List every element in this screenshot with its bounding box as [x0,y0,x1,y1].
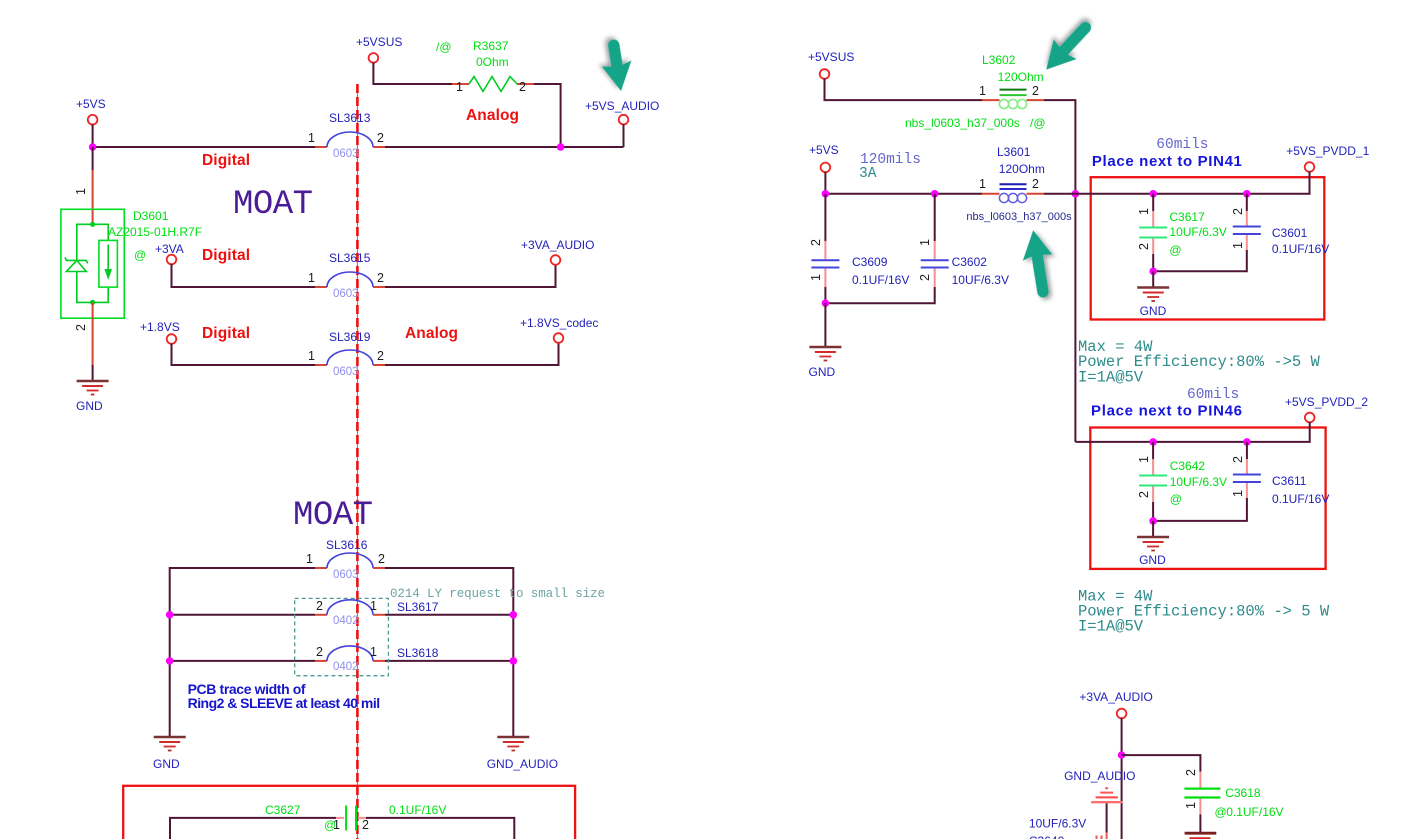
diode D3601 triangle [66,260,86,271]
svg-text:Digital: Digital [202,325,250,342]
wire right of SL3616 [385,568,513,737]
wire C3617 bottom to GND [1152,271,1154,287]
ferrite bead SL3616 pin2 stub [373,567,385,569]
teal arrow 3 (under L3601) [1018,228,1058,300]
capacitor C3618 bottom plate [1184,796,1220,798]
inductor L3602 pin1 stub [982,99,1000,101]
capacitor C3627 left plate [345,806,347,831]
diode D3601 pin1 (red) [92,170,94,224]
inductor L3601 pin1 stub [982,193,1000,195]
wire right of SL3618 [385,660,513,662]
svg-text:nbs_l0603_h37_000s: nbs_l0603_h37_000s [905,116,1020,130]
wire +5VS down [92,124,94,147]
wire +5VS_AUDIO down [623,124,625,147]
junction at C3617 top [1149,190,1157,198]
svg-text:2: 2 [1184,769,1198,776]
capacitor C3642 bottom plate [1139,485,1167,487]
svg-text:+3VA_AUDIO: +3VA_AUDIO [1079,690,1152,704]
capacitor C3611 top plate [1233,474,1261,476]
capacitor C3642 top wire [1152,442,1154,459]
svg-text:C3611: C3611 [1272,474,1307,488]
svg-text:SL3613: SL3613 [329,111,371,125]
MOAT boundary line (red dashes) [356,84,359,839]
capacitor C3627 pin1 stub [336,817,344,819]
terminal +5VSUS (right) [820,69,830,79]
svg-text:/@: /@ [436,40,452,54]
svg-text:C3618: C3618 [1225,786,1261,800]
wire L3601 to trunk [1044,193,1075,195]
junction trunk at L3601 row [1072,190,1080,198]
svg-text:SL3619: SL3619 [329,330,371,344]
svg-text:2: 2 [1032,177,1039,191]
ground GND (box1) [1137,288,1169,302]
wire box2 row [1075,422,1309,442]
capacitor C3640 stub marks (clipped) [1096,836,1098,839]
red rule box (bottom) [123,786,575,839]
terminal +5VS [88,115,98,125]
wire +5VS row to L3601 [825,193,982,195]
svg-text:0.1UF/16V: 0.1UF/16V [852,273,909,287]
svg-text:120Ohm: 120Ohm [999,162,1045,176]
ground GND_AUDIO pin red tail [1106,833,1108,839]
capacitor C3627 pin2 stub [358,817,366,819]
capacitor C3611 top wire [1246,442,1248,459]
junction at C3642 bottom [1149,517,1157,525]
svg-text:1: 1 [918,239,932,246]
svg-text:2: 2 [377,349,384,363]
svg-text:1: 1 [306,552,313,566]
capacitor C3618 top plate [1184,787,1220,789]
diode D3601 internal bottom node [77,272,108,303]
capacitor C3602 top plate [921,259,949,261]
dashed selection box around SL3617 SL3618 [295,598,389,675]
svg-text:0.1UF/16V: 0.1UF/16V [1226,805,1283,819]
svg-text:GND_AUDIO: GND_AUDIO [1064,769,1135,783]
svg-text:+1.8VS_codec: +1.8VS_codec [520,316,598,330]
wire +3VA down-right [172,264,316,287]
svg-text:1: 1 [74,188,88,195]
svg-text:C3617: C3617 [1169,210,1205,224]
svg-text:1: 1 [809,274,823,281]
svg-text:SL3618: SL3618 [397,646,439,660]
junction SL3617 right [510,611,518,619]
svg-text:0214 LY request to small size: 0214 LY request to small size [390,587,605,601]
capacitor C3601 pin2 stub [1246,211,1248,226]
junction at C3609 bottom [822,299,830,307]
wire +5VSUS down-right to R3637 [373,63,452,85]
junction SL3618 left [166,657,174,665]
capacitor C3642 bottom wire [1152,502,1154,521]
svg-text:Digital: Digital [202,152,250,169]
terminal +1.8VS_codec [554,333,564,343]
wire C3618 to ground [1199,814,1201,832]
svg-text:SL3615: SL3615 [329,251,371,265]
svg-text:C3602: C3602 [952,255,988,269]
wire +1.8VS down-right [172,344,316,366]
MOAT boundary line (gray underlay) [356,84,358,839]
svg-text:C3609: C3609 [852,255,888,269]
teal arrow 2 (at L3602) [1035,13,1100,80]
terminal +5VSUS (left) [369,53,379,63]
svg-text:0402: 0402 [333,661,359,673]
capacitor C3602 top wire [934,194,936,241]
capacitor C3609 top plate [811,259,839,261]
inductor L3601 pin2 stub [1027,193,1045,195]
capacitor C3609 bottom plate [811,267,839,269]
svg-text:@: @ [1169,243,1181,257]
capacitor C3617 bottom plate [1139,237,1167,239]
svg-text:+5VS_PVDD_1: +5VS_PVDD_1 [1286,144,1369,158]
junction at C3611 top [1243,438,1251,446]
junction at +5VS right [822,190,830,198]
ground GND_AUDIO (bottom) [497,737,529,751]
resistor R3637 pin1 stub [452,83,469,85]
svg-text:2: 2 [519,80,526,94]
svg-text:GND: GND [1140,304,1167,318]
wire SL3619 to +1.8VS_codec [385,343,559,366]
svg-text:+5VSUS: +5VSUS [808,50,854,64]
svg-text:2: 2 [74,324,88,331]
inductor L3602 coil loops [999,99,1026,108]
wire left of SL3617 [170,614,315,616]
svg-text:+5VS: +5VS [809,143,839,157]
svg-text:120Ohm: 120Ohm [998,70,1044,84]
ferrite bead SL3613 pin2 stub [373,146,385,148]
capacitor C3609 top wire [824,194,826,241]
junction SL3617 left [166,611,174,619]
junction at C3602 top [931,190,939,198]
junction at +5VS column [89,143,97,151]
ferrite bead SL3617 arc [327,600,373,615]
svg-text:L3601: L3601 [997,145,1031,159]
ground GND_AUDIO inverted bar1 [1091,801,1122,803]
ferrite bead SL3613 pin1 stub [315,146,327,148]
ferrite bead SL3618 arc [327,646,373,661]
svg-text:@: @ [1170,492,1182,506]
diode D3601 arrowhead [104,269,112,280]
svg-text:0.1UF/16V: 0.1UF/16V [1272,242,1329,256]
terminal +3VA_AUDIO [551,255,561,265]
capacitor C3609 pin2 stub [824,241,826,259]
svg-text:+5VSUS: +5VSUS [356,35,402,49]
inductor L3601 bar bottom [1000,188,1027,190]
capacitor C3642 pin2 stub [1152,487,1154,503]
svg-text:1: 1 [979,84,986,98]
svg-text:Place next to PIN46: Place next to PIN46 [1091,403,1242,420]
ground bar2 under C3618 (clipped) [1190,837,1211,839]
capacitor C3611 pin1 stub [1246,483,1248,498]
diode D3601 zener cathode bar [65,257,88,263]
svg-text:2: 2 [377,131,384,145]
terminal +3VA [167,255,177,265]
capacitor C3642 top plate [1139,475,1167,477]
ferrite bead SL3615 pin1 stub [315,286,327,288]
ground GND_AUDIO inverted bar3 [1100,792,1113,794]
capacitor C3609 bottom wire [824,287,826,303]
ferrite bead SL3615 arc [327,272,373,287]
ferrite bead SL3616 pin1 stub [315,567,327,569]
svg-text:GND: GND [809,365,836,379]
ground GND (under C3609) [809,347,841,361]
ground GND (box2) [1137,537,1169,551]
terminal +5VS_PVDD_1 [1305,162,1315,172]
svg-text:3A: 3A [859,166,877,182]
svg-text:Analog: Analog [466,107,519,124]
ground GND (bottom left) [154,737,186,751]
wire SL3615 to +3VA_AUDIO [385,265,556,288]
svg-text:MOAT: MOAT [293,497,373,535]
junction at C3601 top [1243,190,1251,198]
wire bottom box right [366,818,514,839]
svg-text:C3640: C3640 [1029,834,1065,839]
capacitor C3602 pin1 stub [934,241,936,259]
svg-text:MOAT: MOAT [233,186,313,224]
teal arrow 1 (at +5VS_AUDIO) [598,37,636,93]
resistor R3637 pin2 stub [517,83,534,85]
capacitor C3618 pin2 stub [1199,772,1201,788]
svg-text:/@: /@ [1030,116,1046,130]
svg-text:+5VS: +5VS [76,97,106,111]
svg-text:0603: 0603 [333,366,359,378]
svg-text:1: 1 [456,80,463,94]
svg-text:GND: GND [1139,553,1166,567]
ferrite bead SL3617 pin1 stub [373,614,385,616]
terminal +5VS (right) [821,163,831,173]
wire +5VS to diode D3601 [92,147,94,170]
svg-text:1: 1 [370,645,377,659]
svg-text:1: 1 [1137,456,1151,463]
svg-text:1: 1 [370,599,377,613]
svg-text:2: 2 [918,274,932,281]
junction SL3618 right [510,657,518,665]
svg-text:2: 2 [316,599,323,613]
inductor L3602 bar bottom [1000,94,1027,96]
capacitor C3617 bottom wire [1152,254,1154,271]
wire box1 row [1075,171,1309,193]
wire +5VSUS to L3602 [825,78,983,100]
capacitor C3609 pin1 stub [824,269,826,288]
svg-text:2: 2 [377,271,384,285]
capacitor C3611 bottom wire [1153,498,1247,521]
capacitor C3601 top wire [1246,194,1248,211]
ferrite bead SL3616 arc [327,553,373,568]
diode D3601 internal top node [77,224,108,260]
svg-text:GND: GND [76,399,103,413]
capacitor C3611 bottom plate [1233,481,1261,483]
capacitor C3602 pin2 stub [934,269,936,288]
svg-text:R3637: R3637 [473,39,509,53]
capacitor C3617 pin2 stub [1152,239,1154,255]
svg-text:2: 2 [809,239,823,246]
svg-text:C3642: C3642 [1170,459,1206,473]
svg-text:GND: GND [153,757,180,771]
svg-text:1: 1 [1184,802,1198,809]
junction at C3642 top [1149,438,1157,446]
capacitor C3618 pin1 stub [1199,799,1201,815]
capacitor C3627 right plate [355,806,357,831]
ferrite bead SL3613 arc [327,132,373,147]
ground GND (left) [77,381,109,395]
svg-text:1: 1 [308,131,315,145]
wire bottom box left [170,818,336,839]
ground GND_AUDIO inverted dash [1105,787,1108,789]
svg-text:Ring2 & SLEEVE at least 40 mil: Ring2 & SLEEVE at least 40 mil [188,695,381,711]
svg-text:@: @ [134,248,146,262]
svg-text:1: 1 [308,349,315,363]
svg-text:2: 2 [1231,208,1245,215]
svg-text:1: 1 [308,271,315,285]
capacitor C3611 pin2 stub [1246,459,1248,474]
svg-text:1: 1 [333,818,340,832]
capacitor C3601 pin1 stub [1246,235,1248,250]
svg-text:Place next to PIN41: Place next to PIN41 [1092,153,1242,170]
terminal +5VS_PVDD_2 [1305,413,1315,423]
diode D3601 pin2 (red) [92,302,94,365]
svg-text:SL3616: SL3616 [326,538,368,552]
junction at R3637 branch [557,143,565,151]
svg-text:10UF/6.3V: 10UF/6.3V [1170,475,1227,489]
svg-text:0.1UF/16V: 0.1UF/16V [1272,492,1329,506]
capacitor C3617 top wire [1152,194,1154,211]
red rule box PIN41 [1091,177,1325,319]
diode D3601 arrow inside box [107,245,109,271]
svg-text:0603: 0603 [333,569,359,581]
svg-text:@: @ [1215,805,1227,819]
ground GND_AUDIO pin wire [1106,803,1108,832]
wire L3602 to trunk [1044,100,1075,442]
wire left of SL3618 [170,660,315,662]
svg-text:nbs_l0603_h37_000s: nbs_l0603_h37_000s [966,211,1072,223]
svg-text:1: 1 [1137,208,1151,215]
svg-text:10UF/6.3V: 10UF/6.3V [1029,817,1086,831]
svg-text:+5VS_AUDIO: +5VS_AUDIO [585,99,659,113]
svg-text:+5VS_PVDD_2: +5VS_PVDD_2 [1285,395,1368,409]
svg-text:2: 2 [378,552,385,566]
ferrite bead SL3618 pin1 stub [373,660,385,662]
svg-text:2: 2 [1137,243,1151,250]
svg-text:+1.8VS: +1.8VS [140,320,180,334]
svg-text:GND_AUDIO: GND_AUDIO [487,757,558,771]
wire SL3613 to +5VS_AUDIO [385,146,624,148]
wire C3609 bottom to GND [824,303,826,347]
svg-text:0402: 0402 [333,615,359,627]
svg-text:2: 2 [362,818,369,832]
junction at C3617 bottom [1149,268,1157,276]
wire +5VS down [824,172,826,194]
svg-text:2: 2 [1231,456,1245,463]
svg-text:1: 1 [1231,490,1245,497]
ground GND_AUDIO inverted bar2 [1096,796,1118,798]
ground bar under C3618 (clipped) [1185,832,1217,835]
svg-text:SL3617: SL3617 [397,600,439,614]
wire C3642 bottom to GND [1152,521,1154,537]
red rule box PIN46 [1090,428,1325,569]
capacitor C3602 bottom plate [921,267,949,269]
capacitor C3617 top plate [1139,227,1167,229]
svg-text:I=1A@5V: I=1A@5V [1078,618,1144,636]
svg-text:60mils: 60mils [1187,387,1239,403]
svg-text:C3601: C3601 [1272,226,1308,240]
capacitor C3642 pin1 stub [1152,459,1154,475]
wire left of SL3616 [170,568,315,737]
svg-text:1: 1 [1231,242,1245,249]
junction +3VA_AUDIO [1118,751,1126,759]
diode D3601 internal bottom dot [90,300,95,305]
svg-text:+3VA_AUDIO: +3VA_AUDIO [521,238,594,252]
ferrite bead SL3619 pin2 stub [373,364,385,366]
svg-text:L3602: L3602 [982,53,1016,67]
diode D3601 regulator box [99,240,118,287]
svg-text:0603: 0603 [333,148,359,160]
svg-text:0Ohm: 0Ohm [476,55,509,69]
svg-text:1: 1 [979,177,986,191]
wire D3601 to GND [92,365,94,381]
wire main +5VS row [93,146,315,148]
svg-text:Analog: Analog [405,325,458,342]
svg-text:10UF/6.3V: 10UF/6.3V [952,273,1009,287]
ferrite bead SL3618 pin2 stub [315,660,327,662]
ferrite bead SL3619 pin1 stub [315,364,327,366]
inductor L3601 coil loops [999,193,1026,202]
diode D3601 package outline [61,209,124,318]
svg-text:I=1A@5V: I=1A@5V [1078,368,1144,386]
ferrite bead SL3617 pin2 stub [315,614,327,616]
svg-text:2: 2 [316,645,323,659]
wire R3637 to +5VS_AUDIO net [534,84,561,147]
ferrite bead SL3619 arc [327,350,373,365]
svg-text:Digital: Digital [202,247,250,264]
svg-text:0.1UF/16V: 0.1UF/16V [389,803,446,817]
svg-text:10UF/6.3V: 10UF/6.3V [1169,225,1226,239]
capacitor C3601 bottom wire [1153,250,1247,271]
diode D3601 internal top dot [90,222,95,227]
capacitor C3601 top plate [1233,226,1261,228]
svg-text:2: 2 [1032,84,1039,98]
svg-text:D3601: D3601 [133,209,169,223]
terminal +1.8VS [167,334,177,344]
svg-text:AZ2015-01H.R7F: AZ2015-01H.R7F [108,225,202,239]
svg-text:60mils: 60mils [1156,137,1208,153]
wire right of SL3617 [385,614,513,616]
capacitor C3601 bottom plate [1233,233,1261,235]
inductor L3602 bar top [1000,89,1027,91]
svg-text:+3VA: +3VA [155,242,184,256]
inductor L3602 pin2 stub [1027,99,1045,101]
wire +3VA_AUDIO down trunk [1121,718,1123,839]
terminal +3VA_AUDIO (bottom right) [1117,709,1127,719]
wire to C3618 [1122,755,1201,772]
svg-text:0603: 0603 [333,288,359,300]
svg-text:2: 2 [1137,491,1151,498]
capacitor C3617 pin1 stub [1152,211,1154,227]
ferrite bead SL3615 pin2 stub [373,286,385,288]
svg-text:C3627: C3627 [265,803,301,817]
capacitor C3602 bottom wire [825,287,934,303]
inductor L3601 bar top [1000,183,1027,185]
resistor R3637 zigzag [469,77,517,92]
terminal +5VS_AUDIO [619,115,629,125]
